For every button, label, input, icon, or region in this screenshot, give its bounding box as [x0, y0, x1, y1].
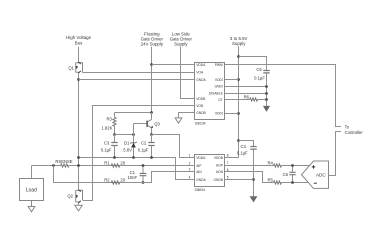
wire AON and resistor R5 [225, 172, 310, 185]
diode D1 zener 5.6V [123, 135, 136, 158]
node dot 24V at VDDA [150, 63, 153, 66]
ground GNDB (open triangle) [175, 118, 182, 123]
svg-text:10nF: 10nF [127, 175, 137, 180]
svg-text:VDDB: VDDB [214, 156, 224, 160]
svg-text:20: 20 [120, 177, 125, 182]
svg-text:R5: R5 [267, 177, 273, 182]
op-amp ADC block [302, 161, 329, 188]
capacitor C6 [283, 166, 296, 183]
svg-text:1: 1 [189, 154, 191, 158]
svg-text:DT: DT [218, 98, 222, 102]
wire ADC output to controller [329, 132, 342, 176]
svg-text:VDDA: VDDA [196, 63, 206, 67]
wire GNDI [225, 86, 267, 88]
node Low Side Gate Driver Supply label [170, 31, 193, 46]
svg-text:AOP: AOP [216, 164, 224, 168]
node 3 to 5.5V Supply label [230, 36, 248, 46]
svg-text:Controller: Controller [345, 130, 364, 135]
wire Q3 emitter down [151, 128, 153, 135]
wire GNDB 892x to ground [225, 179, 254, 181]
svg-text:C6: C6 [283, 172, 289, 177]
wire Q1 emitter / phase node vertical [78, 73, 80, 189]
wire VOB to Q2 gate [83, 106, 195, 201]
wire R2 branch from load node [54, 166, 195, 183]
wire GNDB stub [179, 113, 195, 118]
capacitor C4 0.1uF [237, 141, 257, 197]
wire GNDA to phase node [79, 79, 195, 81]
svg-text:Supply: Supply [232, 41, 246, 46]
svg-text:VOA: VOA [196, 71, 204, 75]
svg-text:GNDA: GNDA [196, 78, 206, 82]
svg-text:RSENSE: RSENSE [55, 159, 72, 164]
svg-text:20: 20 [120, 160, 125, 165]
svg-text:7: 7 [227, 161, 229, 165]
capacitor C1 10nF [127, 166, 146, 183]
wire R3 bottom to D1 top [115, 134, 134, 136]
svg-text:GNDA: GNDA [196, 178, 206, 182]
svg-text:Bus: Bus [75, 40, 83, 45]
svg-text:R4: R4 [267, 160, 273, 165]
svg-text:Si892x: Si892x [195, 188, 206, 192]
op-amp U1 Si8234 box [195, 63, 225, 126]
wire load branch down from RSENSE left [31, 166, 33, 179]
node To Controller label [345, 124, 364, 135]
svg-text:4: 4 [189, 175, 191, 179]
resistor RSENSE [32, 159, 195, 167]
svg-text:VDDA: VDDA [196, 156, 206, 160]
node Floating Gate Driver 24V Supply label [141, 31, 164, 46]
svg-text:R2: R2 [104, 177, 110, 182]
svg-text:8: 8 [227, 154, 229, 158]
transistor Q1 [68, 62, 82, 73]
capacitor C2 0.1uF [138, 135, 155, 158]
svg-text:5.6V: 5.6V [123, 148, 132, 153]
svg-text:GNDB: GNDB [196, 111, 206, 115]
svg-text:Q1: Q1 [68, 65, 74, 70]
node High Voltage Bus label [66, 35, 91, 45]
node phase junction dot [77, 78, 80, 81]
svg-text:3: 3 [189, 168, 191, 172]
svg-text:Load: Load [26, 188, 37, 194]
node 24V sub-rail [115, 112, 152, 114]
svg-text:5: 5 [227, 175, 229, 179]
resistor R2 20 [104, 177, 125, 184]
svg-text:VDDB: VDDB [196, 97, 206, 101]
svg-text:Supply: Supply [174, 42, 188, 47]
svg-text:ADC: ADC [316, 172, 326, 177]
wire low side supply vertical to VDDB [181, 47, 195, 99]
svg-text:1.82K: 1.82K [101, 125, 112, 130]
svg-text:GNDI: GNDI [215, 85, 223, 89]
svg-text:C5: C5 [256, 67, 262, 72]
ground below load (open triangle) [28, 201, 35, 212]
wire VDDI top [225, 79, 239, 81]
svg-text:Q3: Q3 [154, 121, 160, 126]
wire emitter rail to Si892x VDDA [152, 135, 195, 158]
svg-text:To: To [345, 124, 350, 129]
wire VDDA [152, 64, 195, 66]
load box [20, 179, 44, 201]
svg-text:VDDI: VDDI [215, 78, 223, 82]
svg-text:PWM: PWM [215, 63, 223, 67]
svg-text:D1: D1 [124, 140, 130, 145]
svg-text:DISABLE: DISABLE [209, 92, 224, 96]
wire VDDI bottom [225, 113, 239, 115]
svg-text:GNDB: GNDB [213, 178, 223, 182]
wire Q1 gate to VOA [83, 72, 195, 74]
svg-text:0.1µF: 0.1µF [138, 148, 149, 153]
capacitor C5 0.1uF [239, 57, 270, 106]
resistor R4 on AOP [225, 160, 310, 167]
wire 3-5.5V supply bus [225, 46, 239, 157]
op-amp U2 Si892x box [189, 154, 229, 192]
wire PWM to controller [225, 65, 342, 127]
svg-text:24V Supply: 24V Supply [141, 42, 164, 47]
ground Q2 (open triangle) [75, 205, 82, 211]
svg-text:VOB: VOB [196, 104, 204, 108]
svg-text:AIN: AIN [196, 170, 202, 174]
svg-text:C2: C2 [141, 140, 147, 145]
wire floating ground rail to GNDA pin4 [79, 158, 195, 180]
svg-text:R1: R1 [104, 160, 110, 165]
ground below C5 (filled) [263, 106, 270, 112]
svg-text:AON: AON [216, 170, 224, 174]
svg-text:VDDI: VDDI [215, 112, 223, 116]
wire Q3 base to D1 [134, 124, 147, 135]
capacitor C3 0.1uF [101, 135, 118, 158]
svg-text:0.1µF: 0.1µF [237, 150, 248, 155]
resistor R1 20 [104, 160, 125, 167]
svg-text:Si8234: Si8234 [195, 121, 206, 125]
svg-text:R6: R6 [244, 94, 250, 99]
wire Q3 collector [151, 113, 153, 120]
resistor R3 1.82K (vertical) [101, 113, 116, 135]
transistor Q2 [67, 190, 82, 203]
svg-text:C3: C3 [104, 140, 110, 145]
svg-text:2: 2 [189, 161, 191, 165]
svg-text:R3: R3 [107, 116, 113, 121]
svg-text:0.1µF: 0.1µF [101, 148, 112, 153]
resistor R6 on DT [225, 94, 267, 101]
wire Q2 emitter to ground [78, 203, 80, 205]
node dot R3 bottom [113, 133, 116, 136]
svg-text:C4: C4 [240, 144, 246, 149]
wire 24V supply vertical [151, 47, 153, 120]
ground below C4 (filled) [250, 196, 258, 202]
wire HV bus vertical to Q1 collector [78, 47, 80, 63]
svg-text:0.1µF: 0.1µF [254, 76, 265, 81]
wire DISABLE [225, 93, 267, 95]
svg-text:AIP: AIP [196, 164, 202, 168]
svg-text:Q2: Q2 [67, 194, 73, 199]
transistor Q3 [147, 119, 160, 128]
